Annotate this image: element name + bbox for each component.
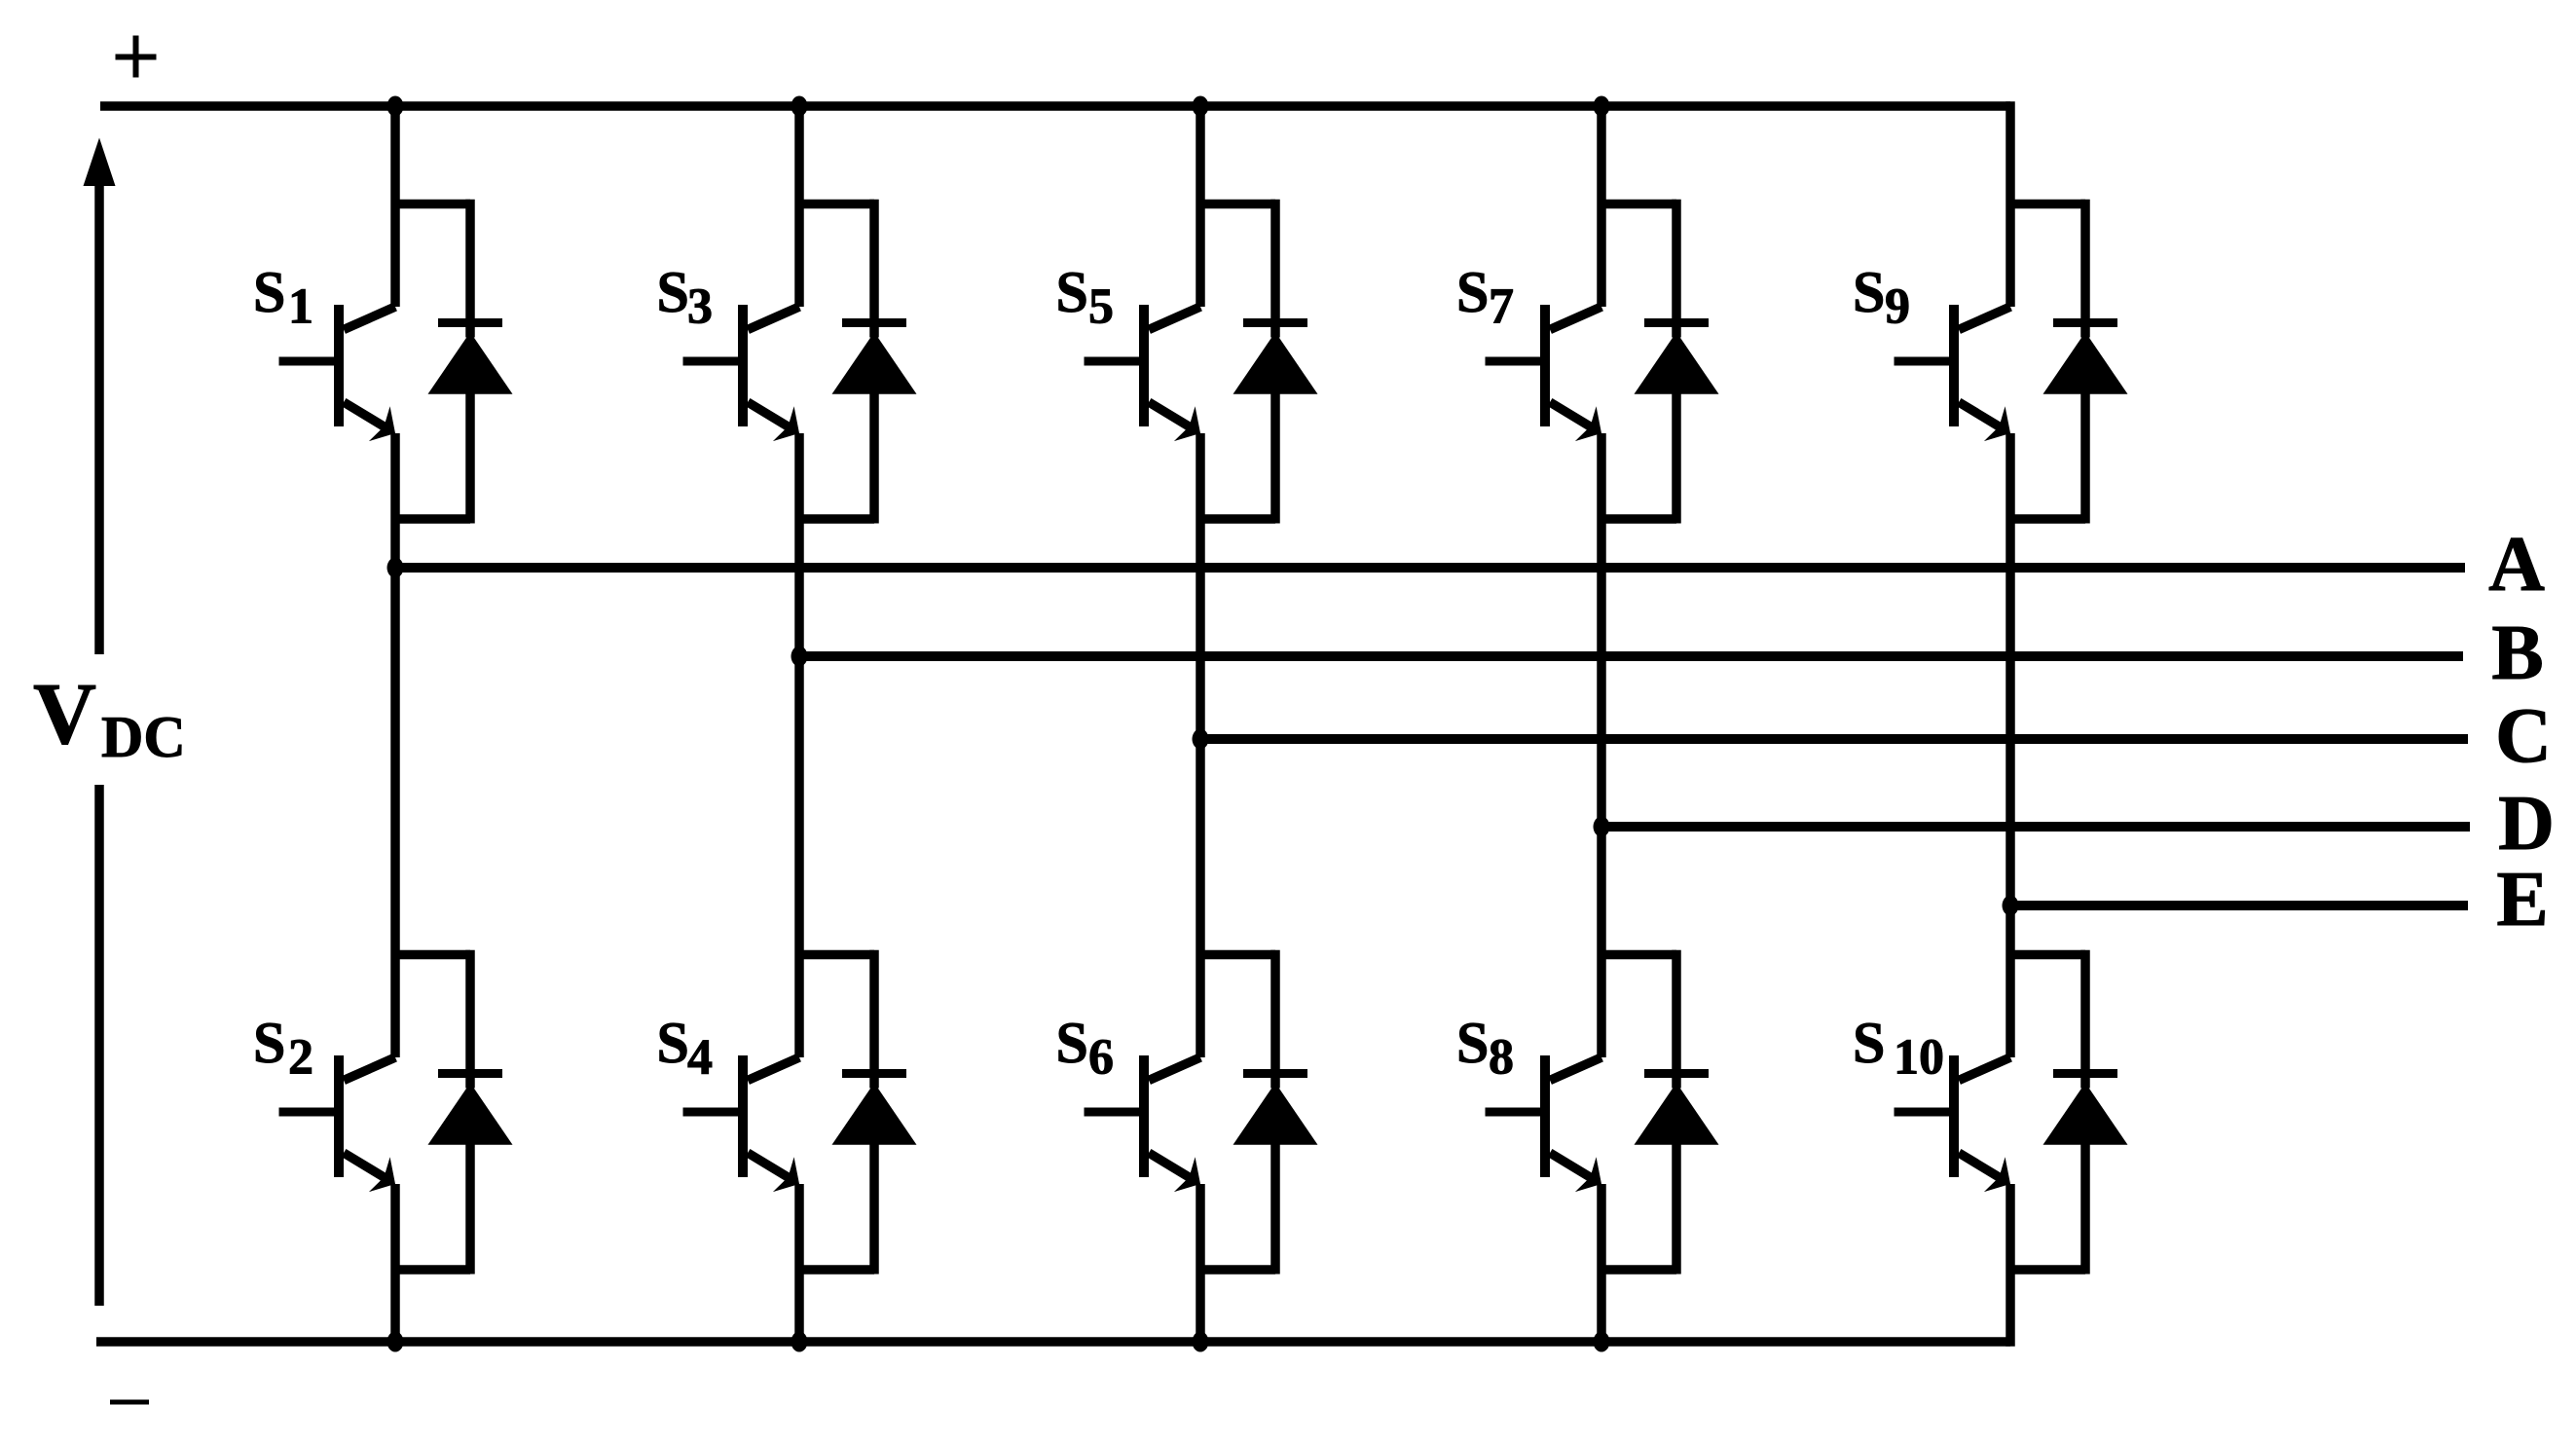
label + (positive terminal) (116, 36, 157, 78)
wire: leg 1 top connection (bus to S1 collector) (390, 106, 400, 307)
wire: leg 5 bottom connection (S10 emitter to negative bus) (2006, 1184, 2015, 1347)
svg-text:2: 2 (288, 1030, 313, 1086)
diode D9 (antiparallel diode of switch S9) (2010, 200, 2128, 524)
wire: leg 2 top connection (bus to S3 collector) (794, 106, 804, 307)
transistor S6 (IGBT of switch S6) (1085, 1055, 1211, 1202)
svg-text:S: S (1056, 1011, 1088, 1075)
svg-text:6: 6 (1088, 1030, 1114, 1086)
label S7 (1456, 260, 1514, 335)
junction: leg 4 on positive bus (1594, 96, 1610, 117)
diode D10 (antiparallel diode of switch S10) (2010, 950, 2128, 1275)
diode D6 (antiparallel diode of switch S6) (1200, 950, 1318, 1275)
svg-text:S: S (1456, 1011, 1489, 1075)
junction: leg 3 on positive bus (1193, 96, 1209, 117)
diode D2 (antiparallel diode of switch S2) (395, 950, 513, 1275)
label VDC (33, 666, 186, 769)
svg-text:V: V (33, 666, 96, 762)
transistor S7 (IGBT of switch S7) (1486, 305, 1612, 451)
label S1 (253, 260, 313, 335)
label S6 (1056, 1011, 1115, 1086)
label - (negative terminal) (110, 1400, 149, 1405)
wire: phase B output line (799, 651, 2463, 661)
transistor S1 (IGBT of switch S1) (279, 305, 406, 451)
wire: leg 4 top connection (bus to S7 collector) (1597, 106, 1606, 307)
node A (phase A junction) (387, 558, 404, 578)
svg-text:D: D (2498, 781, 2555, 867)
wire: phase C output line (1200, 734, 2468, 744)
wire: leg 4 bottom connection (S8 emitter to negative bus) (1597, 1184, 1606, 1342)
diode D7 (antiparallel diode of switch S7) (1601, 200, 1719, 524)
wire: leg 5 top connection (bus to S9 collector) (2006, 101, 2015, 307)
transistor S2 (IGBT of switch S2) (279, 1055, 406, 1202)
diode D3 (antiparallel diode of switch S3) (799, 200, 917, 524)
junction: leg 2 on positive bus (791, 96, 808, 117)
wire: phase D output line (1601, 822, 2470, 832)
svg-text:S: S (657, 1011, 689, 1075)
svg-text:C: C (2495, 693, 2552, 779)
label S9 (1853, 260, 1910, 335)
svg-text:8: 8 (1489, 1030, 1514, 1086)
node D (phase D junction) (1594, 817, 1610, 837)
transistor S5 (IGBT of switch S5) (1085, 305, 1211, 451)
svg-text:S: S (253, 260, 285, 324)
svg-text:1: 1 (288, 279, 313, 335)
svg-text:S: S (657, 260, 689, 324)
wire: positive DC bus (100, 101, 2010, 111)
diode D8 (antiparallel diode of switch S8) (1601, 950, 1719, 1275)
diode D5 (antiparallel diode of switch S5) (1200, 200, 1318, 524)
wire: phase A output line (395, 563, 2465, 573)
junction: leg 1 on positive bus (387, 96, 404, 117)
transistor S8 (IGBT of switch S8) (1486, 1055, 1612, 1202)
label S10 (1853, 1011, 1944, 1086)
svg-text:S: S (1853, 260, 1885, 324)
svg-text:A: A (2488, 522, 2545, 608)
junction: leg 1 on negative bus (387, 1332, 404, 1352)
svg-text:S: S (1456, 260, 1489, 324)
transistor S9 (IGBT of switch S9) (1895, 305, 2021, 451)
label S3 (657, 260, 714, 335)
svg-text:S: S (253, 1011, 285, 1075)
wire: leg 4 midpoint (S7 emitter / phase D node / S8 collector) (1597, 433, 1606, 1057)
svg-text:E: E (2496, 857, 2548, 943)
transistor S4 (IGBT of switch S4) (683, 1055, 810, 1202)
svg-text:3: 3 (687, 279, 713, 335)
node B (phase B junction) (791, 647, 808, 667)
diode D4 (antiparallel diode of switch S4) (799, 950, 917, 1275)
wire: leg 3 bottom connection (S6 emitter to negative bus) (1196, 1184, 1205, 1342)
wire: leg 2 bottom connection (S4 emitter to negative bus) (794, 1184, 804, 1342)
svg-text:7: 7 (1489, 279, 1514, 335)
wire: leg 3 top connection (bus to S5 collector) (1196, 106, 1205, 307)
node E (phase E junction) (2003, 896, 2019, 916)
label S4 (657, 1011, 714, 1086)
svg-text:4: 4 (687, 1030, 713, 1086)
label S5 (1056, 260, 1115, 335)
label S8 (1456, 1011, 1514, 1086)
wire: negative DC bus (96, 1337, 2010, 1347)
wire: leg 3 midpoint (S5 emitter / phase C node / S6 collector) (1196, 433, 1205, 1057)
wire: phase E output line (2010, 901, 2468, 910)
wire: leg 5 midpoint (S9 emitter / phase E node / S10 collector) (2006, 433, 2015, 1057)
junction: leg 4 on negative bus (1594, 1332, 1610, 1352)
svg-text:9: 9 (1885, 279, 1910, 335)
transistor S3 (IGBT of switch S3) (683, 305, 810, 451)
svg-text:DC: DC (101, 705, 186, 769)
wire: leg 1 bottom connection (S2 emitter to negative bus) (390, 1184, 400, 1342)
diode D1 (antiparallel diode of switch S1) (395, 200, 513, 524)
wire: leg 2 midpoint (S3 emitter / phase B node / S4 collector) (794, 433, 804, 1057)
svg-text:5: 5 (1088, 279, 1114, 335)
junction: leg 2 on negative bus (791, 1332, 808, 1352)
svg-text:S: S (1853, 1011, 1885, 1075)
transistor S10 (IGBT of switch S10) (1895, 1055, 2021, 1202)
junction: leg 3 on negative bus (1193, 1332, 1209, 1352)
svg-text:S: S (1056, 260, 1088, 324)
Vdc measurement arrow line (84, 138, 116, 1307)
node C (phase C junction) (1193, 729, 1209, 750)
svg-text:10: 10 (1894, 1030, 1944, 1086)
wire: leg 1 midpoint (S1 emitter / phase A node / S2 collector) (390, 433, 400, 1057)
label S2 (253, 1011, 313, 1086)
svg-text:B: B (2491, 610, 2543, 696)
